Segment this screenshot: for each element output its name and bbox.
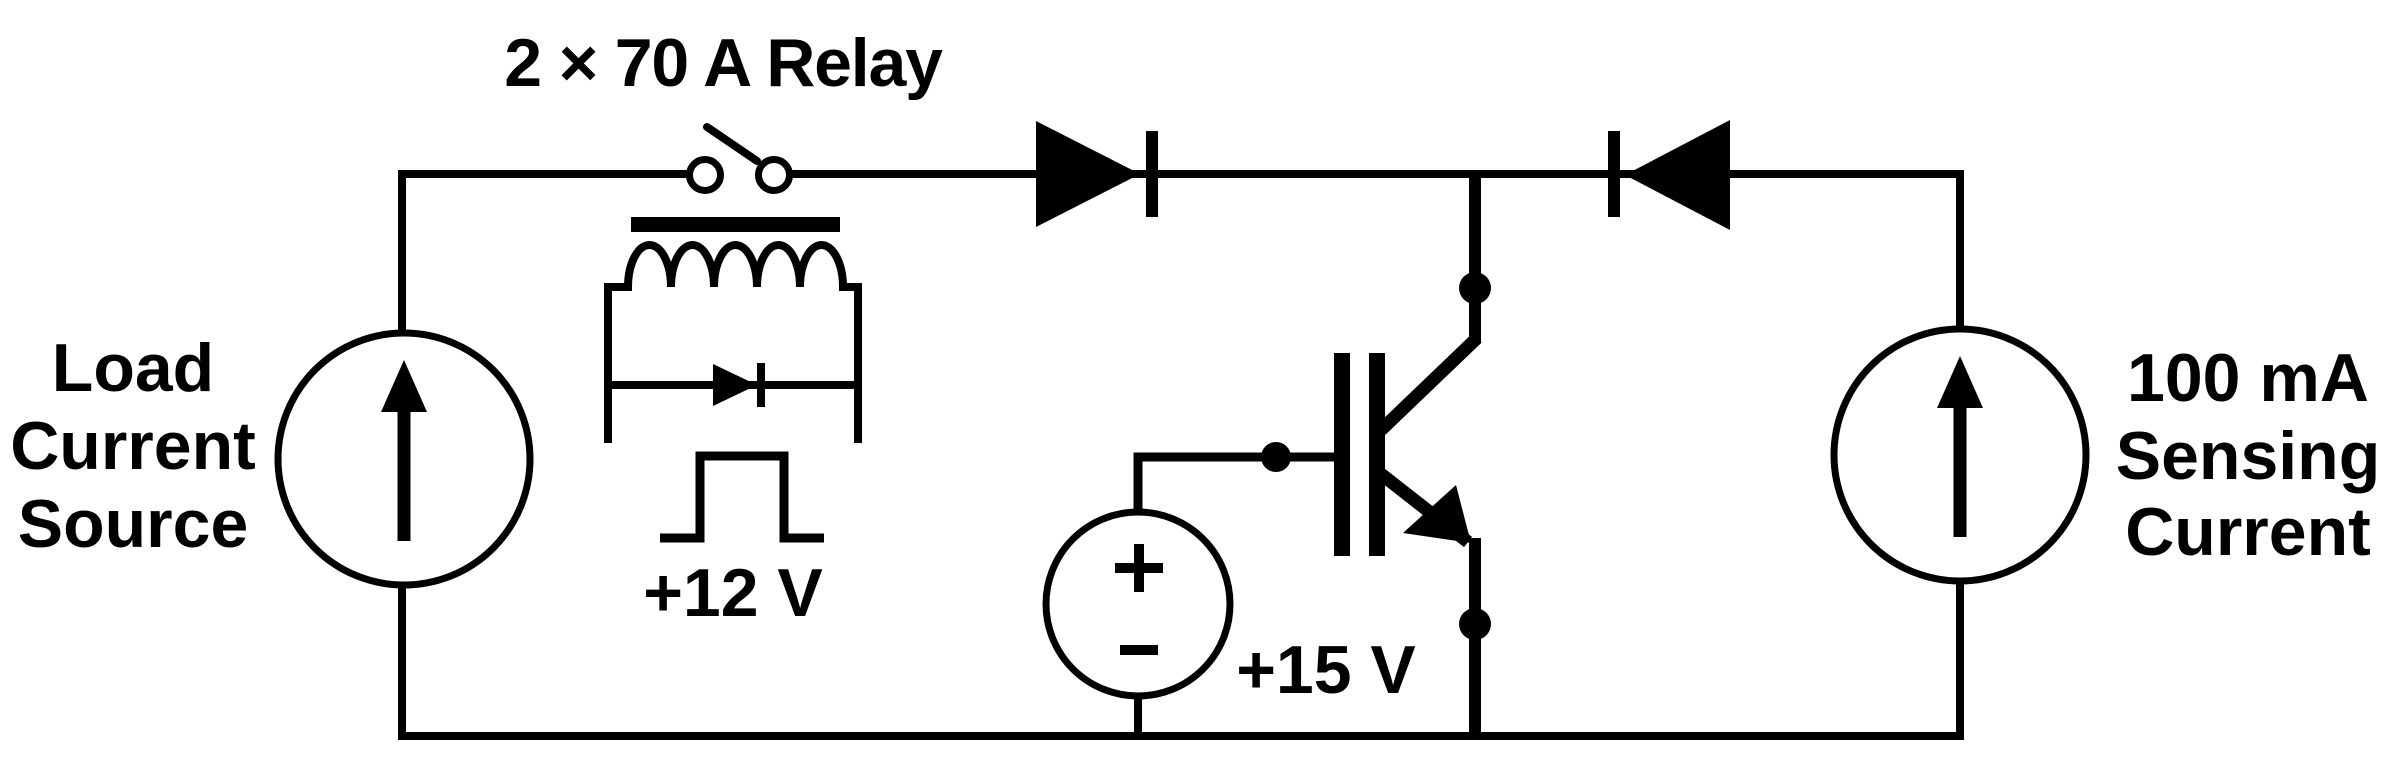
svg-text:Current: Current: [10, 408, 256, 484]
pulse waveform symbol: [660, 456, 824, 538]
relay coil frame left vertical: [604, 283, 612, 443]
sensing current source CS2: [1834, 329, 2086, 581]
wire: top rail left segment to switch: [398, 170, 687, 178]
svg-text:Source: Source: [18, 486, 249, 562]
wire: right vertical (sensing source branch): [1956, 174, 1964, 736]
relay switch contact right: [759, 160, 790, 191]
flyback diode D3: [713, 363, 765, 407]
node: collector junction dot: [1459, 272, 1491, 304]
relay coil L1: [608, 245, 858, 287]
svg-text:Sensing: Sensing: [2116, 418, 2381, 494]
svg-text:Load: Load: [52, 330, 214, 406]
voltage source V1 +15V: [1046, 512, 1230, 696]
relay switch lever: [707, 127, 757, 161]
wire: bottom rail: [398, 732, 1964, 740]
node: emitter junction dot: [1459, 608, 1491, 640]
diode D2 (top rail, pointing left): [1608, 120, 1730, 230]
wire: IGBT emitter vertical: [1469, 538, 1481, 736]
wire: +15V source to bottom rail: [1134, 696, 1142, 736]
wire: flyback diode branch: [604, 381, 862, 389]
node: gate wire dot: [1261, 442, 1291, 472]
wire: top rail from switch to IGBT branch: [792, 170, 1475, 178]
svg-text:+15 V: +15 V: [1236, 632, 1416, 708]
wire: IGBT collector vertical: [1469, 174, 1481, 343]
svg-text:2 × 70 A Relay: 2 × 70 A Relay: [504, 25, 943, 101]
wire: left vertical (load source branch): [398, 174, 406, 736]
wire: top rail from IGBT branch to right corner: [1475, 170, 1964, 178]
relay switch contact left: [690, 160, 721, 191]
svg-text:Current: Current: [2125, 494, 2371, 570]
IGBT Q1: [1334, 338, 1477, 556]
wire: gate drive: [1138, 457, 1334, 514]
load current source CS1: [278, 333, 530, 585]
relay coil frame right vertical: [854, 283, 862, 443]
relay armature bar: [631, 217, 840, 232]
svg-text:+12 V: +12 V: [643, 555, 823, 631]
diode D1 (top rail, pointing right): [1036, 121, 1158, 227]
svg-text:100 mA: 100 mA: [2127, 340, 2369, 416]
